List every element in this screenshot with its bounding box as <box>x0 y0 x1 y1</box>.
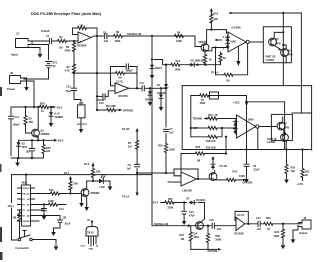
resistor R20 10K <box>286 150 288 177</box>
svg-text:2N5457: 2N5457 <box>199 41 208 44</box>
svg-text:LED: LED <box>100 186 105 189</box>
wire y173 <box>137 173 181 176</box>
ground LED <box>108 184 113 191</box>
column op-amp1 output drop <box>96 36 98 110</box>
wire pin row 5 <box>35 216 63 230</box>
IC pins left <box>18 188 22 221</box>
wire op-amp2 output <box>129 87 166 89</box>
wire jack ring to battery <box>32 45 48 60</box>
svg-text:Input: Input <box>11 53 18 57</box>
battery BT1 9V <box>46 62 52 80</box>
svg-text:RC4558: RC4558 <box>119 95 129 98</box>
node op-amp2 out <box>136 87 138 89</box>
svg-text:9V-2: 9V-2 <box>153 202 159 205</box>
svg-text:47uF: 47uF <box>189 215 195 218</box>
feedback to gate TP-1A <box>216 44 248 75</box>
svg-text:220: 220 <box>46 150 51 153</box>
bias diodes U4 <box>233 120 237 127</box>
wire gate bias vertical <box>215 48 217 75</box>
capacitor C12 <box>258 221 260 226</box>
transistor Q6 NPN <box>281 49 289 57</box>
svg-text:C14: C14 <box>59 208 64 211</box>
svg-text:R29: R29 <box>275 231 280 234</box>
svg-text:1K: 1K <box>305 174 308 177</box>
ground Q3 emitter <box>84 204 89 211</box>
resistor R12 100K <box>171 63 180 66</box>
svg-text:10K: 10K <box>291 170 296 173</box>
svg-text:RC4558: RC4558 <box>77 45 87 48</box>
svg-text:1M: 1M <box>59 47 62 50</box>
svg-text:FS-1B: FS-1B <box>122 128 129 131</box>
IC pins right <box>31 188 35 221</box>
svg-text:SEE TEXT: SEE TEXT <box>77 124 88 126</box>
diode D7 1N4148 <box>189 201 196 205</box>
svg-text:12V-L: 12V-L <box>8 205 15 208</box>
feedback final <box>235 211 248 223</box>
capacitor C10 .0047uF <box>103 94 105 99</box>
svg-text:R27: R27 <box>180 234 185 237</box>
svg-text:0.01uF: 0.01uF <box>41 29 50 33</box>
feedback wire <box>73 28 98 36</box>
svg-text:Power: Power <box>7 87 16 91</box>
trimpot P1 100K <box>200 94 209 97</box>
wire +9V top <box>231 12 301 14</box>
svg-text:C10: C10 <box>99 102 104 105</box>
op-amp U2 CA3080 <box>228 32 246 52</box>
wire inverting input 2 <box>111 85 116 87</box>
resistor R24 to option <box>217 179 243 181</box>
svg-text:1M: 1M <box>80 25 83 28</box>
transistor Q2 2N5457 <box>201 44 209 52</box>
svg-text:470K: 470K <box>65 49 71 52</box>
wire power to battery <box>24 79 49 107</box>
svg-text:.1uF: .1uF <box>79 103 84 105</box>
resistor R10 <box>204 52 206 55</box>
svg-text:4.7K: 4.7K <box>65 69 70 72</box>
resistor R23b pullup <box>69 176 72 180</box>
svg-text:R14: R14 <box>214 13 219 16</box>
ground <box>38 51 43 58</box>
bottom-left box top <box>12 174 153 176</box>
svg-text:1M: 1M <box>226 80 229 83</box>
left drop section2 inputs <box>190 96 192 137</box>
resistor R28 1M to switch <box>18 210 22 233</box>
regulator U5 <box>86 227 98 237</box>
wire inverting input <box>73 34 79 36</box>
svg-text:C12: C12 <box>256 217 261 220</box>
diode D14 on bus <box>151 62 153 64</box>
resistor R5 feedback <box>78 26 87 29</box>
svg-text:TRIANG: TRIANG <box>193 118 203 121</box>
svg-text:SIGNAL-IN: SIGNAL-IN <box>127 32 141 36</box>
svg-text:1/2 U1: 1/2 U1 <box>116 81 124 84</box>
op-amp U3 <box>181 172 196 186</box>
svg-text:1M: 1M <box>118 76 121 79</box>
node signal bus tap <box>151 35 153 37</box>
svg-text:10K: 10K <box>214 18 219 21</box>
resistor R6 100K <box>114 34 123 37</box>
capacitor C2 10uF <box>30 140 35 158</box>
svg-text:1uF: 1uF <box>169 132 174 135</box>
svg-text:R26: R26 <box>266 217 271 220</box>
svg-text:100K: 100K <box>48 200 54 203</box>
svg-text:100uF: 100uF <box>13 124 21 127</box>
svg-text:1M: 1M <box>63 217 66 220</box>
svg-text:DOD FX-25B Envelope Filter (Au: DOD FX-25B Envelope Filter (Auto Wah) <box>31 12 102 16</box>
svg-text:C16: C16 <box>209 219 214 222</box>
svg-text:ZENER: ZENER <box>55 116 64 119</box>
svg-text:R12: R12 <box>176 60 181 63</box>
transistor Q4 <box>196 222 204 230</box>
transistor Q3 2N5089 <box>81 189 89 197</box>
svg-text:1K: 1K <box>223 57 226 60</box>
input jack J1 <box>16 39 33 48</box>
wire final out <box>245 223 302 225</box>
svg-text:100K: 100K <box>169 148 175 151</box>
svg-text:+VCC: +VCC <box>233 101 240 104</box>
wire U4 output <box>259 126 277 128</box>
svg-text:914B: 914B <box>230 41 236 44</box>
capacitor C17 100uF <box>9 107 14 156</box>
net arrow 9V-1 <box>53 106 57 109</box>
ground zener <box>50 118 52 120</box>
capacitor C15 47uF <box>72 88 82 105</box>
resistor R1 <box>58 39 67 42</box>
diode D5 1N914B <box>189 63 196 67</box>
wire U3 out <box>196 178 209 180</box>
svg-text:1/2 U1: 1/2 U1 <box>237 214 245 217</box>
wire jack sleeve ground <box>28 48 40 52</box>
wire emitter row <box>19 139 55 141</box>
resistor R4 220 <box>43 140 45 158</box>
resistor R7 4.7K <box>72 64 75 73</box>
IC U2 4013 <box>22 185 31 226</box>
svg-text:78L05: 78L05 <box>87 232 94 234</box>
bias diodes U2 <box>226 35 230 42</box>
transistor Q7 NPN <box>277 122 285 130</box>
svg-text:+4.5V: +4.5V <box>297 183 304 186</box>
svg-text:.22uF: .22uF <box>253 169 260 172</box>
svg-text:.1uF: .1uF <box>256 228 262 231</box>
ground R20 <box>284 177 289 184</box>
wire to JFET <box>171 36 202 47</box>
resistor R26 1K <box>264 222 273 225</box>
svg-text:3904: 3904 <box>194 236 200 239</box>
node junction <box>73 40 75 42</box>
svg-text:3080: 3080 <box>248 119 254 122</box>
collector rail top box <box>282 13 284 86</box>
ground jack <box>293 227 298 237</box>
arrow down U2 bias <box>237 47 239 61</box>
wire output <box>91 36 195 38</box>
svg-text:9V-1: 9V-1 <box>57 105 63 109</box>
svg-text:100K: 100K <box>176 40 182 43</box>
svg-text:CA3094: CA3094 <box>267 141 276 144</box>
ground R29 <box>281 242 286 249</box>
chain D4 C7 R19 vertical <box>165 65 167 173</box>
wire right bus <box>292 13 312 113</box>
svg-text:NPN: NPN <box>276 44 281 46</box>
svg-text:10K: 10K <box>96 171 101 174</box>
resistor R13 68K to option <box>97 109 119 111</box>
ground power jack <box>24 78 27 84</box>
svg-text:2N5089: 2N5089 <box>91 192 100 195</box>
svg-text:R19 10K: R19 10K <box>206 146 216 149</box>
svg-text:1uF: 1uF <box>127 167 132 170</box>
power jack J2 <box>10 76 25 84</box>
svg-text:1N4148: 1N4148 <box>196 199 205 202</box>
svg-text:C17: C17 <box>15 116 20 119</box>
svg-text:PART OF: PART OF <box>266 56 277 59</box>
svg-text:4013: 4013 <box>22 182 28 185</box>
transistor Q8 NPN <box>281 134 289 142</box>
wire lower input <box>216 47 229 49</box>
resistor 1M feedback <box>116 72 125 75</box>
svg-text:R28: R28 <box>215 235 220 238</box>
svg-text:47uF: 47uF <box>66 90 72 93</box>
svg-text:NPN: NPN <box>284 127 289 129</box>
svg-text:R18 10K: R18 10K <box>206 140 216 143</box>
ground pin stub <box>81 194 83 200</box>
LED D2 <box>99 179 103 184</box>
resistor R28b 100K <box>207 226 209 250</box>
wire Q2 source <box>209 48 228 51</box>
svg-text:C15: C15 <box>66 86 71 89</box>
diode D9 to ground <box>160 87 162 89</box>
regulator legs <box>89 236 97 246</box>
collector rail box2 <box>284 114 286 149</box>
section2 border left <box>181 86 183 150</box>
VCC vertical <box>246 96 248 150</box>
svg-text:100K: 100K <box>215 239 221 242</box>
capacitor C16 <box>212 223 214 228</box>
row R18 <box>191 128 222 137</box>
resistor R7 <box>136 140 139 149</box>
capacitor C7 <box>164 129 169 131</box>
feedback resistor branch <box>74 72 137 74</box>
net arrow 9V-2 <box>54 139 58 142</box>
wire pin row 4 caps <box>35 205 67 214</box>
svg-text:GND: GND <box>89 249 94 251</box>
svg-text:R23: R23 <box>196 146 201 149</box>
wire op-amp2 input <box>97 91 115 97</box>
R23 wire <box>181 137 226 173</box>
resistor R3 10K <box>26 107 32 133</box>
svg-text:1K: 1K <box>209 59 212 62</box>
node op-amp1 out <box>96 35 98 37</box>
wire pin row 4b <box>35 209 45 211</box>
zener D6 <box>50 107 52 111</box>
capacitor 100pF <box>126 64 128 69</box>
transistor pair box 2 <box>271 114 292 140</box>
svg-text:9V-2: 9V-2 <box>58 139 64 143</box>
capacitor C1 0.01uF <box>49 38 51 43</box>
svg-text:9V-2: 9V-2 <box>84 163 90 166</box>
wire collector feed section2 <box>247 102 285 115</box>
svg-text:Footswitch: Footswitch <box>16 247 30 250</box>
ground option <box>80 118 82 126</box>
resistor R24 <box>40 105 49 108</box>
wire option row <box>191 248 218 250</box>
svg-text:OUT: OUT <box>81 246 86 248</box>
svg-text:R22: R22 <box>49 189 54 192</box>
resistor R21 1K <box>302 150 304 181</box>
svg-text:.1uF: .1uF <box>216 228 222 231</box>
svg-text:R19: R19 <box>158 144 163 147</box>
IC pin labels <box>22 188 32 223</box>
svg-text:R15: R15 <box>208 114 213 117</box>
svg-text:100K: 100K <box>115 40 121 43</box>
svg-text:C13: C13 <box>189 211 194 214</box>
svg-text:9V: 9V <box>53 65 56 68</box>
capacitor C8 1uF <box>135 164 140 166</box>
diode D4 1N914B <box>164 83 168 90</box>
transistor pair box top <box>263 27 291 63</box>
ground C9 <box>244 176 249 183</box>
feedback loop cap branch <box>111 67 138 89</box>
svg-text:.01uF: .01uF <box>64 223 71 226</box>
svg-text:NPN: NPN <box>288 55 293 57</box>
plus input stub <box>168 181 181 183</box>
svg-text:OPTION: OPTION <box>243 181 253 184</box>
rail 9V <box>11 106 53 108</box>
svg-text:4001: 4001 <box>22 146 28 149</box>
svg-text:-: - <box>80 33 81 37</box>
svg-text:100K: 100K <box>200 102 206 105</box>
svg-text:220K: 220K <box>168 207 174 210</box>
wire input tip <box>32 40 78 42</box>
diode D10 <box>211 162 215 169</box>
svg-text:RC4558: RC4558 <box>235 233 245 236</box>
svg-text:LM1458: LM1458 <box>183 190 193 193</box>
svg-text:1N914B: 1N914B <box>157 92 166 95</box>
op-amp U1c final <box>236 217 245 230</box>
transistor Q1 2N5089 <box>32 129 40 137</box>
ground left <box>17 158 19 160</box>
transistor Q5 NPN <box>269 38 277 46</box>
component box option <box>78 105 86 118</box>
FS line vertical <box>136 131 138 193</box>
net stub arrow U2 <box>217 39 222 41</box>
envelope rail <box>152 60 216 65</box>
svg-text:CA3094: CA3094 <box>266 59 275 62</box>
svg-text:1M: 1M <box>13 216 16 219</box>
wire ground row <box>11 157 44 159</box>
resistor R27 1M <box>190 226 192 250</box>
svg-text:10K: 10K <box>73 182 78 185</box>
svg-text:J2: J2 <box>10 71 14 75</box>
svg-text:OPTION: OPTION <box>208 250 218 253</box>
svg-text:100pF: 100pF <box>126 70 134 73</box>
ground C13 <box>182 218 187 225</box>
op-amp U1b <box>115 83 129 94</box>
capacitor C3 <box>105 33 107 38</box>
svg-text:TP-1A: TP-1A <box>211 72 218 75</box>
diode D8 to ground <box>149 87 151 89</box>
op-amp U4 CA3080 <box>237 115 256 138</box>
svg-text:100K: 100K <box>239 175 245 178</box>
wire switch to ground <box>32 240 56 244</box>
resistor R23 1M <box>196 152 205 155</box>
svg-text:2N5089: 2N5089 <box>41 133 50 136</box>
wire Q1 collector to rail <box>37 107 39 125</box>
svg-text:1K: 1K <box>267 228 270 231</box>
svg-text:100K: 100K <box>274 235 280 238</box>
svg-text:R25: R25 <box>168 198 173 201</box>
svg-text:D5 1N914B: D5 1N914B <box>191 60 204 63</box>
bottom-left box left <box>12 175 18 240</box>
resistor R9 100K <box>175 34 184 37</box>
svg-text:PART OF: PART OF <box>267 138 278 141</box>
wire Q2 collector up <box>207 30 228 40</box>
resistor R11 <box>220 52 222 54</box>
svg-text:1M: 1M <box>197 159 200 162</box>
signal bus vertical <box>151 36 153 226</box>
edge artifacts <box>0 87 2 96</box>
transistor Q9 <box>209 173 217 181</box>
resistor R14 10K <box>210 8 213 12</box>
wire U2 output <box>249 41 263 43</box>
svg-text:Output: Output <box>299 232 307 235</box>
svg-text:FS-1A: FS-1A <box>122 196 129 199</box>
pot row P1 <box>191 95 247 97</box>
svg-text:1N914: 1N914 <box>155 67 162 70</box>
capacitor C11 <box>142 86 144 91</box>
wire pin row 2 with R22 <box>35 193 82 195</box>
svg-text:FS-1B: FS-1B <box>220 165 227 168</box>
wire pin row 7 <box>35 220 40 222</box>
capacitor C9 .22uF <box>244 150 249 177</box>
svg-text:OPTION: OPTION <box>123 108 133 112</box>
op-amp U1a <box>78 32 91 43</box>
output jack J3 <box>298 220 311 229</box>
svg-text:1M: 1M <box>128 145 131 148</box>
output feedback drop <box>257 128 259 149</box>
svg-text:R13 68K: R13 68K <box>106 105 116 108</box>
svg-text:CA3080: CA3080 <box>232 27 242 30</box>
diode D3 <box>18 140 20 158</box>
resistor R19 <box>164 144 167 153</box>
footswitch S1 <box>18 238 21 241</box>
svg-text:SIGNAL-IN: SIGNAL-IN <box>154 222 168 226</box>
svg-text:R24: R24 <box>40 102 45 105</box>
svg-text:.1uF: .1uF <box>103 40 109 43</box>
svg-text:9V-1: 9V-1 <box>64 172 70 175</box>
section2 bottom rail <box>182 149 311 151</box>
svg-text:C11: C11 <box>140 82 145 85</box>
wire signal row bottom <box>152 225 236 227</box>
resistor R25 220K <box>165 201 174 204</box>
svg-text:J1: J1 <box>16 32 20 36</box>
svg-text:1M: 1M <box>181 238 184 241</box>
svg-text:R24: R24 <box>233 171 238 174</box>
capacitor C13 47uF <box>182 203 187 219</box>
svg-text:100K: 100K <box>175 69 181 72</box>
resistor R2 470K <box>73 41 75 65</box>
svg-text:10K: 10K <box>29 121 34 124</box>
resistor R29 100K <box>282 224 284 243</box>
svg-text:10u: 10u <box>26 151 31 154</box>
svg-text:1K: 1K <box>215 114 218 117</box>
section2 border top <box>182 86 311 150</box>
svg-text:+: + <box>80 39 82 43</box>
feedback U3 <box>174 169 198 179</box>
